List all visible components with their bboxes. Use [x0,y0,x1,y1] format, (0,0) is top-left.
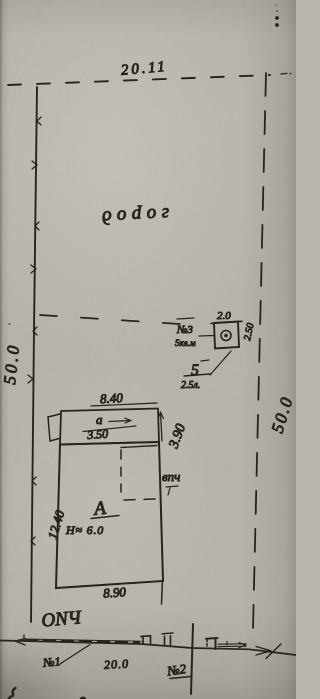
gate marks (two posts with overbar) [162,632,173,635]
right dimension arrow 3.90 [161,412,163,441]
porch (left parallelogram) [48,414,60,441]
double wall line under annex (right half) [121,446,157,448]
svg-text:Н≈ 6.0: Н≈ 6.0 [65,523,104,537]
survey tick marks on left boundary [28,117,41,545]
stray mark right of top line [281,72,287,75]
stray ink dots top-right [275,4,279,27]
fence segment with arrow (right of divider) [218,644,246,647]
neighbour shed on street line [206,639,208,648]
svg-text:8.90: 8.90 [103,584,127,601]
street baseline with arrows both ends [0,641,296,656]
stray pen mark bottom-left [9,688,16,699]
shed on street line (left small open rect) [141,636,151,644]
left plot boundary (solid) [31,87,37,622]
svg-text:впч: впч [162,469,180,484]
right edge extension below house [161,581,164,604]
x cross at right arrow [266,644,281,659]
svg-text:№1: №1 [42,654,61,670]
right street arrowhead [256,647,271,656]
svg-text:№3: №3 [176,324,193,336]
ink blob bottom edge [80,697,86,699]
svg-text:город: город [96,203,170,228]
main house A outline [56,442,163,588]
left street arrowhead [15,639,25,645]
svg-text:а: а [96,412,103,427]
shed No3: extended top edge [211,321,242,323]
svg-text:№2: №2 [165,661,187,679]
svg-text:20.0: 20.0 [104,657,130,672]
annex 'a' outline [60,409,159,445]
svg-text:2.5л.: 2.5л. [181,380,200,391]
fence band along street (upper line + thick dashes) [24,639,141,641]
svg-text:5: 5 [191,362,199,379]
stray dot left of middle line [9,323,11,325]
svg-text:2.0: 2.0 [217,310,231,322]
interior dashed partition [120,450,122,492]
shed No3: square outline [214,322,239,349]
leader line from label to shed [199,335,214,338]
shed No3: well circle with dot [221,331,231,341]
middle dashed line (garden boundary) [40,315,180,324]
plot divider line (between No1 and No2) [191,624,193,694]
leader line from 5 to shed corner [210,351,231,375]
svg-text:8.40: 8.40 [100,390,124,406]
svg-text:5кв.м: 5кв.м [175,338,196,348]
label No3 with overline [177,318,194,319]
right plot boundary (dashed) [253,73,266,629]
top plot boundary (dashed) [8,75,270,85]
svg-text:ОNЧ: ОNЧ [41,607,83,631]
